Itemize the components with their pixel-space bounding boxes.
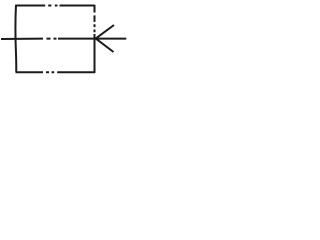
wire: center conductor to fan apex	[58, 38, 96, 40]
enclosure left edge	[14, 5, 17, 72]
wire: fan upper conductor	[96, 25, 114, 38]
wire: left lead through enclosure	[1, 38, 57, 40]
wire: fan middle conductor	[96, 38, 127, 40]
enclosure right edge	[94, 5, 96, 73]
enclosure bottom edge	[16, 71, 96, 73]
enclosure top edge	[16, 5, 95, 7]
node: fan apex junction	[95, 38, 97, 40]
wire: fan lower conductor	[96, 39, 114, 52]
